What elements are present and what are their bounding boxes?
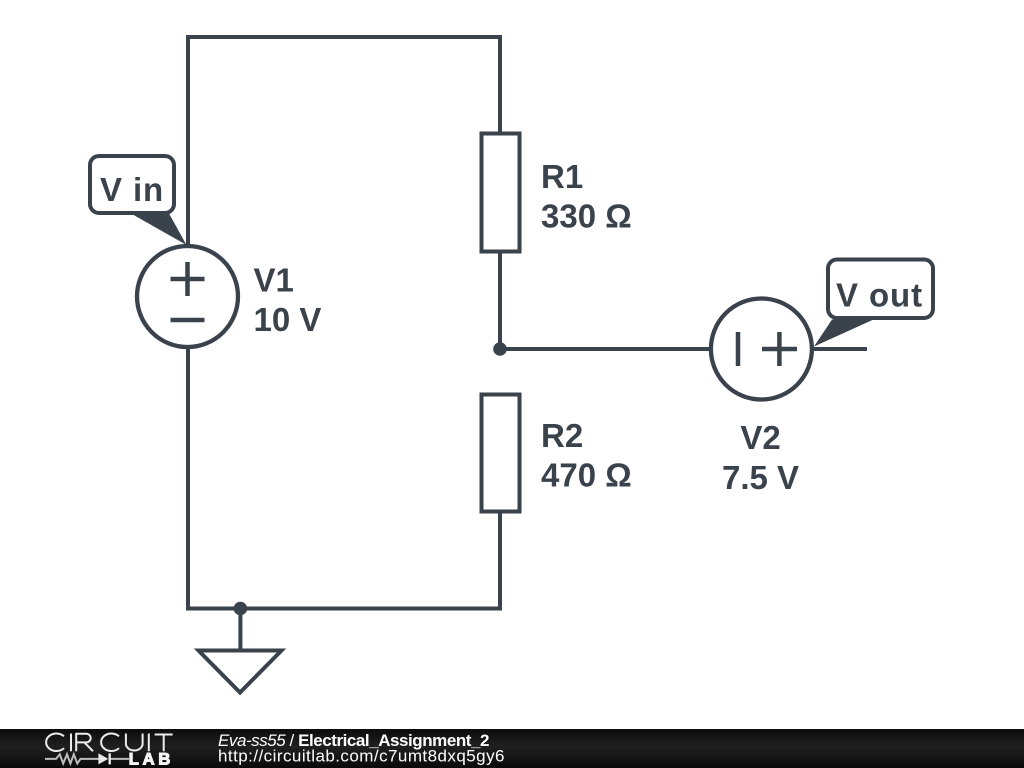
svg-text:7.5 V: 7.5 V [722,459,799,496]
voltage source V2 [711,299,812,400]
label V2 7.5 V [722,419,799,496]
CircuitLab logo resistor-diode squiggle [45,753,129,764]
svg-text:V in: V in [100,171,164,208]
svg-text:10 V: 10 V [254,301,322,338]
callout V out [814,260,933,347]
wire from V1 top via top rail to R1 top [188,37,500,246]
svg-text:V2: V2 [740,419,780,456]
svg-text:330 Ω: 330 Ω [541,198,632,235]
svg-text:V out: V out [836,277,923,314]
svg-text:470 Ω: 470 Ω [541,457,632,494]
wire R1 bottom to node A [498,252,502,350]
resistor R2 [482,395,520,512]
svg-text:LAB: LAB [129,751,174,768]
footer title Eva-ss55 / Electrical_Assignment_2 [218,731,489,750]
svg-text:R1: R1 [541,158,583,195]
svg-text:V1: V1 [254,262,294,299]
svg-text:http://circuitlab.com/c7umt8dx: http://circuitlab.com/c7umt8dxq5gy6 [218,747,505,766]
CircuitLab logo word CIRCUIT [46,733,173,751]
node A junction dot [493,342,507,356]
footer bar [0,729,1024,768]
CircuitLab logo word LAB [129,751,174,768]
label R2 470 Ω [541,417,632,494]
label R1 330 Ω [541,158,632,235]
wire V2 output stub [812,347,867,351]
voltage source V1 [137,246,238,347]
footer URL [218,747,505,766]
resistor R1 [482,134,520,252]
wire node A to V2 [500,347,711,351]
ground [199,651,282,693]
callout V in [90,156,187,245]
wire ground stub [238,609,242,652]
wire from R2 bottom via bottom rail to V1 bottom [188,347,500,609]
ground junction dot [234,602,248,616]
label V1 10 V [254,262,322,339]
svg-text:R2: R2 [541,417,583,454]
